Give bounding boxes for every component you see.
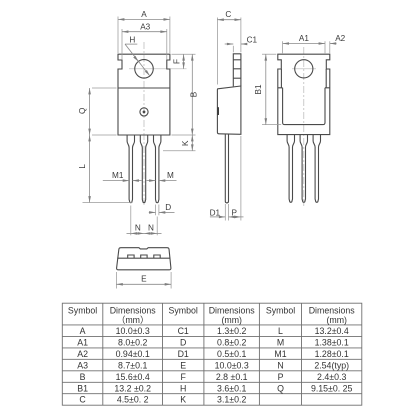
svg-text:H: H: [180, 383, 186, 393]
dimension Q: [92, 87, 117, 89]
dimension table grid: [62, 303, 362, 405]
svg-text:3.1±0.2: 3.1±0.2: [217, 395, 246, 405]
svg-text:A1: A1: [299, 34, 309, 43]
svg-text:10.0±0.3: 10.0±0.3: [215, 360, 249, 370]
back hole horizontal centerline: [292, 68, 316, 70]
svg-text:B: B: [80, 372, 86, 382]
table column 3 symbols: [178, 326, 189, 405]
svg-text:9.15±0. 25: 9.15±0. 25: [311, 383, 353, 393]
bottom view parting line: [117, 257, 170, 259]
svg-text:E: E: [141, 275, 147, 284]
back lead 3: [313, 135, 320, 203]
svg-text:P: P: [278, 372, 284, 382]
side view tab notch line 1: [233, 59, 241, 61]
svg-text:L: L: [278, 326, 283, 336]
svg-text:E: E: [180, 360, 186, 370]
svg-text:15.6±0.4: 15.6±0.4: [116, 372, 150, 382]
table headers: [68, 306, 355, 326]
dimension D: [155, 205, 157, 216]
back view centerline: [303, 47, 305, 206]
table column 6 values: [311, 326, 353, 393]
back view outline: [278, 54, 330, 134]
svg-text:(mm): (mm): [221, 315, 242, 325]
back notch edge line left: [278, 69, 283, 88]
svg-text:M1: M1: [112, 171, 124, 180]
bottom view lead section 1: [128, 255, 134, 258]
bottom view outline: [117, 248, 171, 270]
front lead 1: [127, 135, 134, 203]
svg-text:8.0±0.2: 8.0±0.2: [118, 337, 147, 347]
svg-text:H: H: [129, 35, 135, 44]
side view lead: [225, 134, 228, 203]
svg-text:Q: Q: [277, 383, 284, 393]
table column 5 symbols: [274, 326, 286, 393]
svg-text:2.54(typ): 2.54(typ): [314, 360, 349, 370]
svg-text:N: N: [148, 223, 154, 232]
dimension N N: [130, 206, 132, 236]
svg-text:Dimensions: Dimensions: [309, 306, 356, 316]
svg-text:M1: M1: [274, 349, 286, 359]
svg-text:Dimensions: Dimensions: [209, 306, 256, 316]
table column 1 symbols: [77, 326, 88, 405]
table column 4 values: [215, 326, 249, 405]
svg-text:K: K: [181, 140, 190, 146]
svg-text:0.94±0.1: 0.94±0.1: [116, 349, 150, 359]
front view centerline: [143, 42, 145, 205]
svg-text:A3: A3: [140, 22, 150, 31]
table column 2 values: [114, 326, 151, 405]
svg-text:A3: A3: [77, 360, 88, 370]
svg-text:K: K: [180, 395, 186, 405]
svg-text:F: F: [181, 372, 187, 382]
svg-text:13.2 ±0.2: 13.2 ±0.2: [114, 383, 151, 393]
svg-text:A2: A2: [77, 349, 88, 359]
dimension L: [83, 202, 133, 204]
dimension K: [172, 134, 196, 136]
back notch edge line right: [325, 69, 330, 88]
svg-text:D1: D1: [178, 349, 189, 359]
svg-text:C: C: [79, 395, 86, 405]
svg-text:D: D: [165, 203, 171, 212]
side view pin mark: [217, 107, 219, 115]
front lead 3: [154, 135, 161, 203]
front tab/body seam: [118, 87, 170, 89]
bottom view lead section 3: [154, 255, 160, 258]
front hole horizontal centerline: [129, 68, 187, 70]
svg-text:A: A: [80, 326, 86, 336]
svg-text:Symbol: Symbol: [169, 306, 198, 316]
svg-text:C1: C1: [178, 326, 189, 336]
dimension A2: [329, 41, 331, 53]
svg-text:8.7±0.1: 8.7±0.1: [118, 360, 147, 370]
svg-text:Q: Q: [78, 108, 87, 114]
svg-text:0.8±0.2: 0.8±0.2: [217, 337, 246, 347]
back lead 1: [287, 135, 294, 203]
side view body: [217, 86, 241, 134]
front lead 2: [140, 135, 147, 203]
back lead 2: [300, 135, 307, 203]
svg-text:D1: D1: [210, 209, 221, 218]
front mounting hole H: [135, 60, 154, 79]
svg-text:Symbol: Symbol: [266, 306, 295, 316]
svg-text:M: M: [277, 337, 284, 347]
dimension B1: [262, 53, 276, 55]
bottom view lead section 2: [141, 255, 147, 258]
svg-text:A: A: [141, 10, 147, 19]
svg-text:0.5±0.1: 0.5±0.1: [217, 349, 246, 359]
svg-text:F: F: [173, 59, 182, 64]
svg-text:（mm）: （mm）: [117, 315, 149, 325]
dimension A1: [282, 41, 284, 53]
svg-text:2.8 ±0.1: 2.8 ±0.1: [216, 372, 248, 382]
svg-text:1.3±0.2: 1.3±0.2: [217, 326, 246, 336]
side view tab hole line: [233, 77, 241, 79]
dimension F: [172, 53, 196, 55]
svg-text:Dimensions: Dimensions: [110, 306, 157, 316]
svg-text:1.38±0.1: 1.38±0.1: [315, 337, 349, 347]
back mounting hole: [295, 60, 313, 78]
svg-text:B1: B1: [254, 84, 263, 94]
svg-text:A2: A2: [335, 34, 345, 43]
svg-text:C1: C1: [247, 35, 258, 44]
front small hole center dot: [143, 111, 146, 114]
dimension A: [117, 17, 119, 54]
back inner rim: [283, 88, 325, 125]
svg-text:L: L: [78, 164, 87, 169]
svg-text:3.6±0.1: 3.6±0.1: [217, 383, 246, 393]
dimension B: [191, 54, 193, 135]
front view body outline: [118, 54, 170, 135]
svg-text:D: D: [180, 337, 186, 347]
svg-text:13.2±0.4: 13.2±0.4: [315, 326, 349, 336]
svg-text:1.28±0.1: 1.28±0.1: [315, 349, 349, 359]
svg-text:N: N: [135, 223, 141, 232]
svg-text:B: B: [189, 91, 198, 97]
svg-text:C: C: [225, 10, 231, 19]
side view tab: [233, 54, 241, 87]
dimension A3: [121, 29, 123, 59]
svg-text:A1: A1: [77, 337, 88, 347]
svg-text:(mm): (mm): [326, 315, 347, 325]
dimension E: [115, 272, 117, 289]
svg-text:Symbol: Symbol: [68, 306, 97, 316]
dimension D1 P: [224, 204, 226, 221]
svg-text:4.5±0. 2: 4.5±0. 2: [117, 395, 149, 405]
svg-text:2.4±0.3: 2.4±0.3: [317, 372, 346, 382]
dimension C: [216, 18, 218, 85]
svg-text:B1: B1: [77, 383, 88, 393]
svg-text:N: N: [277, 360, 283, 370]
svg-text:P: P: [231, 209, 237, 218]
front small hole: [140, 108, 148, 116]
svg-text:M: M: [167, 171, 174, 180]
svg-text:10.0±0.3: 10.0±0.3: [116, 326, 150, 336]
side view tab notch line 2: [233, 68, 241, 70]
